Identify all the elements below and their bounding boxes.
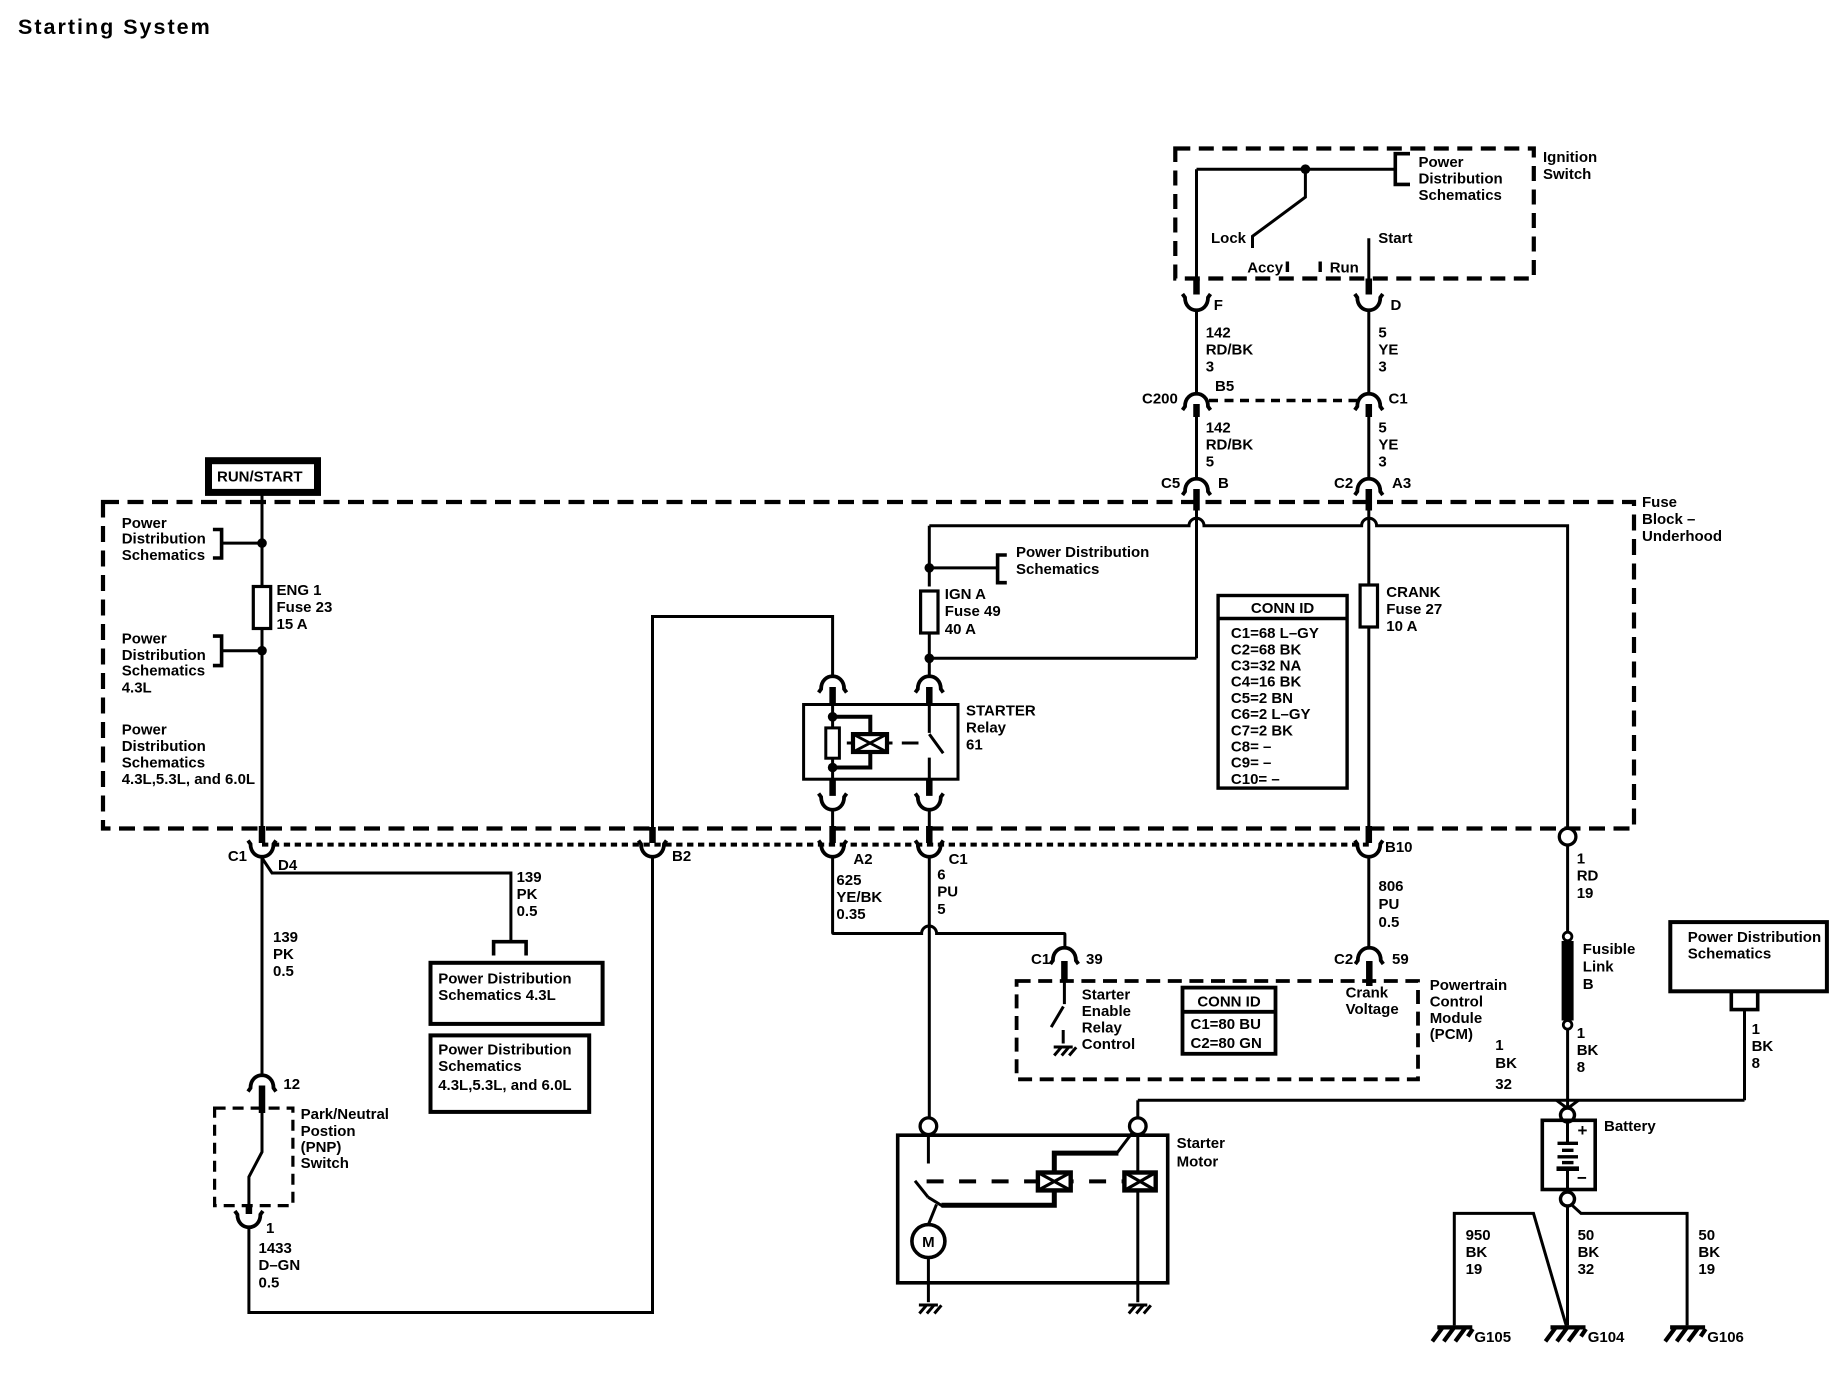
- svg-text:Park/Neutral: Park/Neutral: [301, 1106, 389, 1123]
- svg-text:0.5: 0.5: [259, 1275, 280, 1292]
- svg-text:PU: PU: [937, 884, 958, 901]
- svg-text:142: 142: [1206, 420, 1231, 437]
- svg-text:139: 139: [273, 929, 298, 946]
- svg-text:Lock: Lock: [1211, 230, 1247, 247]
- svg-text:Relay: Relay: [966, 720, 1007, 737]
- svg-text:3: 3: [1378, 454, 1386, 471]
- svg-text:Motor: Motor: [1177, 1154, 1219, 1171]
- svg-text:Run: Run: [1330, 259, 1359, 276]
- svg-text:1: 1: [1495, 1037, 1503, 1054]
- svg-text:40 A: 40 A: [945, 621, 976, 638]
- svg-text:C2: C2: [1334, 951, 1353, 968]
- svg-text:IGN A: IGN A: [945, 586, 986, 603]
- svg-text:Accy: Accy: [1247, 259, 1284, 276]
- svg-text:−: −: [1577, 1169, 1587, 1188]
- svg-text:5: 5: [1378, 325, 1386, 342]
- svg-text:A3: A3: [1392, 475, 1411, 492]
- svg-text:C1=68 L–GY: C1=68 L–GY: [1231, 625, 1319, 642]
- svg-text:Switch: Switch: [301, 1155, 349, 1172]
- svg-text:10 A: 10 A: [1386, 618, 1417, 635]
- svg-text:RD: RD: [1577, 868, 1599, 885]
- svg-text:0.35: 0.35: [836, 906, 865, 923]
- svg-text:Schematics: Schematics: [1688, 946, 1771, 963]
- svg-text:Ignition: Ignition: [1543, 149, 1597, 166]
- svg-text:3: 3: [1206, 359, 1214, 376]
- svg-text:32: 32: [1578, 1261, 1595, 1278]
- svg-text:Power: Power: [122, 515, 167, 532]
- svg-text:Starting System: Starting System: [18, 15, 212, 39]
- svg-text:Underhood: Underhood: [1642, 528, 1722, 545]
- svg-text:BK: BK: [1752, 1038, 1774, 1055]
- svg-text:1433: 1433: [259, 1240, 292, 1257]
- svg-text:4.3L,5.3L, and 6.0L: 4.3L,5.3L, and 6.0L: [438, 1077, 571, 1094]
- svg-text:PK: PK: [273, 946, 294, 963]
- svg-text:C4=16 BK: C4=16 BK: [1231, 674, 1302, 691]
- svg-text:M: M: [922, 1234, 935, 1251]
- svg-text:19: 19: [1466, 1261, 1483, 1278]
- svg-text:+: +: [1578, 1121, 1588, 1140]
- svg-text:4.3L,5.3L, and 6.0L: 4.3L,5.3L, and 6.0L: [122, 771, 255, 788]
- svg-text:Schematics: Schematics: [1419, 187, 1502, 204]
- svg-text:G105: G105: [1474, 1329, 1511, 1346]
- svg-text:Fuse 23: Fuse 23: [277, 599, 333, 616]
- svg-text:Power Distribution: Power Distribution: [438, 1042, 571, 1059]
- svg-text:D: D: [1391, 297, 1402, 314]
- svg-text:0.5: 0.5: [517, 903, 538, 920]
- svg-text:PU: PU: [1379, 896, 1400, 913]
- svg-text:CONN ID: CONN ID: [1251, 600, 1315, 617]
- svg-text:4.3L: 4.3L: [122, 680, 152, 697]
- svg-text:8: 8: [1577, 1059, 1585, 1076]
- svg-text:C2=80 GN: C2=80 GN: [1191, 1035, 1262, 1052]
- svg-text:Power Distribution: Power Distribution: [1688, 929, 1821, 946]
- svg-text:Link: Link: [1583, 959, 1614, 976]
- svg-text:1: 1: [266, 1220, 274, 1237]
- svg-text:61: 61: [966, 737, 983, 754]
- svg-text:C6=2 L–GY: C6=2 L–GY: [1231, 706, 1311, 723]
- svg-text:Schematics: Schematics: [122, 547, 205, 564]
- svg-text:12: 12: [283, 1076, 300, 1093]
- svg-text:1: 1: [1577, 851, 1585, 868]
- svg-text:625: 625: [836, 872, 861, 889]
- svg-text:Start: Start: [1378, 230, 1412, 247]
- svg-text:3: 3: [1378, 359, 1386, 376]
- svg-text:Fuse 49: Fuse 49: [945, 603, 1001, 620]
- svg-text:Control: Control: [1082, 1036, 1135, 1053]
- svg-text:BK: BK: [1495, 1055, 1517, 1072]
- svg-text:0.5: 0.5: [1379, 914, 1400, 931]
- svg-text:50: 50: [1698, 1227, 1715, 1244]
- svg-text:STARTER: STARTER: [966, 703, 1036, 720]
- svg-text:C1: C1: [1389, 391, 1408, 408]
- svg-text:50: 50: [1578, 1227, 1595, 1244]
- svg-text:C3=32 NA: C3=32 NA: [1231, 658, 1302, 675]
- svg-text:A2: A2: [853, 851, 872, 868]
- svg-text:Starter: Starter: [1177, 1135, 1226, 1152]
- svg-text:BK: BK: [1698, 1244, 1720, 1261]
- svg-text:Distribution: Distribution: [122, 738, 206, 755]
- svg-text:806: 806: [1379, 878, 1404, 895]
- svg-text:Power: Power: [122, 721, 167, 738]
- svg-text:15 A: 15 A: [277, 616, 308, 633]
- svg-text:19: 19: [1577, 885, 1594, 902]
- svg-text:C7=2 BK: C7=2 BK: [1231, 722, 1293, 739]
- svg-text:BK: BK: [1577, 1042, 1599, 1059]
- svg-text:Schematics: Schematics: [122, 663, 205, 680]
- svg-text:Module: Module: [1430, 1010, 1483, 1027]
- svg-text:C8= –: C8= –: [1231, 739, 1271, 756]
- svg-text:Distribution: Distribution: [1419, 171, 1503, 188]
- svg-text:C1: C1: [949, 851, 968, 868]
- svg-text:Battery: Battery: [1604, 1118, 1656, 1135]
- svg-text:B10: B10: [1385, 839, 1413, 856]
- svg-text:D–GN: D–GN: [259, 1257, 301, 1274]
- svg-text:Schematics: Schematics: [122, 755, 205, 772]
- svg-text:5: 5: [1378, 420, 1386, 437]
- svg-text:Crank: Crank: [1346, 985, 1389, 1002]
- svg-text:G104: G104: [1588, 1329, 1625, 1346]
- svg-text:39: 39: [1086, 951, 1103, 968]
- svg-text:Postion: Postion: [301, 1123, 356, 1140]
- svg-text:YE/BK: YE/BK: [836, 889, 882, 906]
- svg-text:B5: B5: [1215, 378, 1234, 395]
- svg-text:BK: BK: [1466, 1244, 1488, 1261]
- svg-text:Enable: Enable: [1082, 1003, 1131, 1020]
- svg-text:RD/BK: RD/BK: [1206, 342, 1254, 359]
- svg-text:C2: C2: [1334, 475, 1353, 492]
- svg-text:Power: Power: [1419, 154, 1464, 171]
- svg-text:Power Distribution: Power Distribution: [438, 971, 571, 988]
- svg-text:(PCM): (PCM): [1430, 1026, 1473, 1043]
- svg-text:Fuse: Fuse: [1642, 494, 1677, 511]
- svg-text:B: B: [1583, 976, 1594, 993]
- svg-text:B: B: [1218, 475, 1229, 492]
- svg-text:BK: BK: [1578, 1244, 1600, 1261]
- svg-text:YE: YE: [1378, 437, 1398, 454]
- svg-text:YE: YE: [1378, 342, 1398, 359]
- svg-text:6: 6: [937, 867, 945, 884]
- svg-text:C10= –: C10= –: [1231, 771, 1280, 788]
- svg-text:C1: C1: [228, 848, 247, 865]
- svg-text:C9= –: C9= –: [1231, 755, 1271, 772]
- svg-text:Schematics: Schematics: [1016, 561, 1099, 578]
- svg-text:C200: C200: [1142, 391, 1178, 408]
- svg-text:1: 1: [1577, 1025, 1585, 1042]
- svg-text:Voltage: Voltage: [1346, 1001, 1399, 1018]
- svg-text:RD/BK: RD/BK: [1206, 437, 1254, 454]
- svg-text:ENG 1: ENG 1: [277, 582, 322, 599]
- svg-text:C1: C1: [1031, 951, 1050, 968]
- svg-text:Schematics 4.3L: Schematics 4.3L: [438, 987, 556, 1004]
- svg-text:C5=2 BN: C5=2 BN: [1231, 690, 1293, 707]
- svg-text:Power Distribution: Power Distribution: [1016, 544, 1149, 561]
- svg-text:5: 5: [1206, 454, 1214, 471]
- svg-text:32: 32: [1495, 1076, 1512, 1093]
- svg-text:59: 59: [1392, 951, 1409, 968]
- svg-text:C2=68 BK: C2=68 BK: [1231, 641, 1302, 658]
- svg-text:Starter: Starter: [1082, 987, 1131, 1004]
- svg-text:8: 8: [1752, 1055, 1760, 1072]
- svg-text:CONN ID: CONN ID: [1197, 994, 1261, 1011]
- svg-text:(PNP): (PNP): [301, 1139, 342, 1156]
- svg-text:Distribution: Distribution: [122, 531, 206, 548]
- svg-text:PK: PK: [517, 886, 538, 903]
- svg-text:CRANK: CRANK: [1386, 584, 1440, 601]
- svg-text:B2: B2: [672, 848, 691, 865]
- svg-text:142: 142: [1206, 325, 1231, 342]
- svg-text:Schematics: Schematics: [438, 1058, 521, 1075]
- svg-text:C1=80 BU: C1=80 BU: [1191, 1016, 1261, 1033]
- svg-text:Switch: Switch: [1543, 166, 1591, 183]
- svg-text:Relay: Relay: [1082, 1020, 1123, 1037]
- svg-text:0.5: 0.5: [273, 963, 294, 980]
- svg-text:5: 5: [937, 901, 945, 918]
- svg-text:Power: Power: [122, 630, 167, 647]
- svg-text:19: 19: [1698, 1261, 1715, 1278]
- svg-text:Distribution: Distribution: [122, 647, 206, 664]
- svg-text:D4: D4: [278, 857, 298, 874]
- svg-text:139: 139: [517, 869, 542, 886]
- svg-text:Fuse 27: Fuse 27: [1386, 601, 1442, 618]
- svg-text:Powertrain: Powertrain: [1430, 977, 1508, 994]
- svg-text:C5: C5: [1161, 475, 1180, 492]
- svg-text:950: 950: [1466, 1227, 1491, 1244]
- svg-text:G106: G106: [1707, 1329, 1744, 1346]
- svg-text:Block –: Block –: [1642, 511, 1695, 528]
- svg-text:F: F: [1214, 297, 1223, 314]
- svg-text:Fusible: Fusible: [1583, 941, 1636, 958]
- svg-text:1: 1: [1752, 1021, 1760, 1038]
- svg-text:Control: Control: [1430, 994, 1483, 1011]
- svg-text:RUN/START: RUN/START: [217, 469, 303, 486]
